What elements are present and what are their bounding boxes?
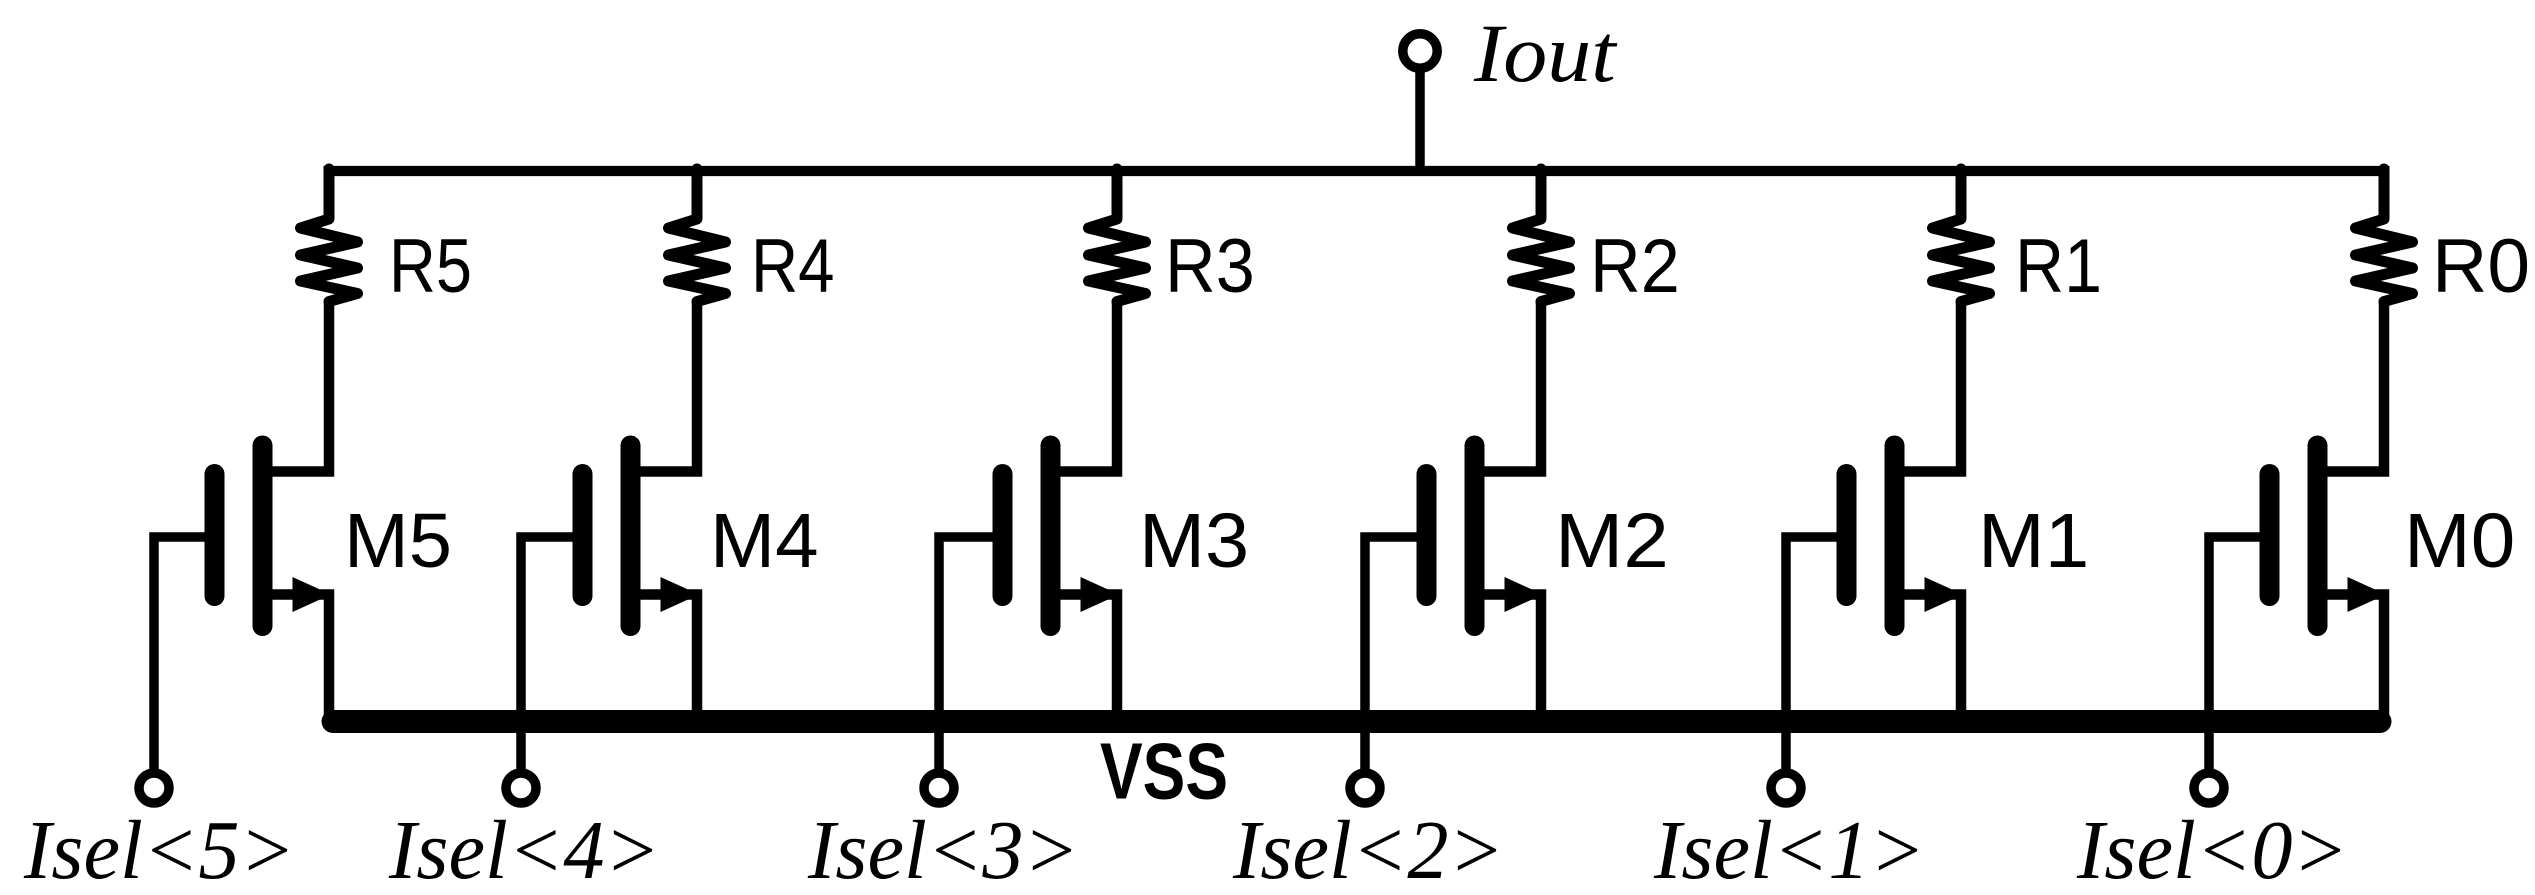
wire gate lead of M3 to terminal	[939, 537, 994, 769]
transistor M4	[583, 446, 631, 627]
svg-text:Isel<1>: Isel<1>	[1653, 803, 1925, 895]
svg-text:Isel<5>: Isel<5>	[23, 803, 295, 895]
wire gate lead of M1 to terminal	[1786, 537, 1838, 769]
svg-text:M2: M2	[1555, 497, 1669, 583]
wire gate lead of M0 to terminal	[2209, 537, 2261, 769]
wire drain lead R1 to M1	[1895, 302, 1962, 472]
svg-text:Isel<2>: Isel<2>	[1232, 803, 1504, 895]
resistor R0	[2356, 169, 2413, 302]
wire source of M3 with arrow	[1051, 595, 1118, 717]
resistor R2	[1513, 169, 1570, 302]
wire source of M5 with arrow	[263, 595, 330, 717]
wire gate lead of M5 to terminal	[154, 537, 206, 769]
svg-text:Isel<0>: Isel<0>	[2076, 803, 2348, 895]
wire source of M0 with arrow	[2318, 595, 2385, 717]
svg-text:R2: R2	[1590, 223, 1680, 308]
svg-text:M0: M0	[2404, 497, 2515, 583]
svg-text:R1: R1	[2015, 225, 2102, 309]
wire drain lead R0 to M0	[2318, 302, 2385, 472]
wire drain lead R2 to M2	[1475, 302, 1542, 472]
svg-text:M3: M3	[1139, 497, 1249, 584]
node Isel terminal Isel<1>	[1771, 773, 1801, 803]
node Iout terminal	[1403, 34, 1437, 68]
wire gate lead of M4 to terminal	[521, 537, 574, 769]
node Isel terminal Isel<5>	[139, 773, 169, 803]
node Isel terminal Isel<0>	[2194, 773, 2224, 803]
wire Iout lead	[1415, 70, 1425, 171]
svg-text:R5: R5	[389, 223, 472, 308]
resistor R5	[301, 169, 358, 302]
svg-text:Isel<3>: Isel<3>	[807, 803, 1079, 895]
wire gate lead of M2 to terminal	[1365, 537, 1418, 769]
svg-text:M1: M1	[1978, 497, 2089, 583]
transistor M2	[1427, 446, 1475, 627]
svg-text:R3: R3	[1165, 223, 1255, 308]
wire source of M1 with arrow	[1895, 595, 1962, 717]
wire drain lead R4 to M4	[631, 302, 698, 472]
node Isel terminal Isel<4>	[506, 773, 536, 803]
resistor R4	[669, 169, 726, 302]
svg-text:R0: R0	[2432, 224, 2530, 309]
wire top bus (Iout net)	[324, 166, 2390, 176]
transistor M3	[1003, 446, 1051, 627]
resistor R1	[1933, 169, 1990, 302]
svg-text:M5: M5	[344, 498, 452, 584]
wire source of M2 with arrow	[1475, 595, 1542, 717]
resistor R3	[1089, 169, 1146, 302]
transistor M1	[1847, 446, 1895, 627]
svg-text:VSS: VSS	[1100, 727, 1228, 816]
wire drain lead R3 to M3	[1051, 302, 1118, 472]
wire VSS bus	[333, 710, 2380, 733]
transistor M0	[2270, 446, 2318, 627]
wire drain lead R5 to M5	[263, 302, 330, 472]
node Isel terminal Isel<3>	[924, 773, 954, 803]
transistor M5	[215, 446, 263, 627]
svg-text:Isel<4>: Isel<4>	[388, 803, 660, 895]
svg-text:R4: R4	[751, 224, 835, 309]
svg-text:Iout: Iout	[1473, 8, 1618, 99]
node Isel terminal Isel<2>	[1350, 773, 1380, 803]
svg-text:M4: M4	[710, 499, 819, 584]
wire source of M4 with arrow	[631, 595, 698, 717]
